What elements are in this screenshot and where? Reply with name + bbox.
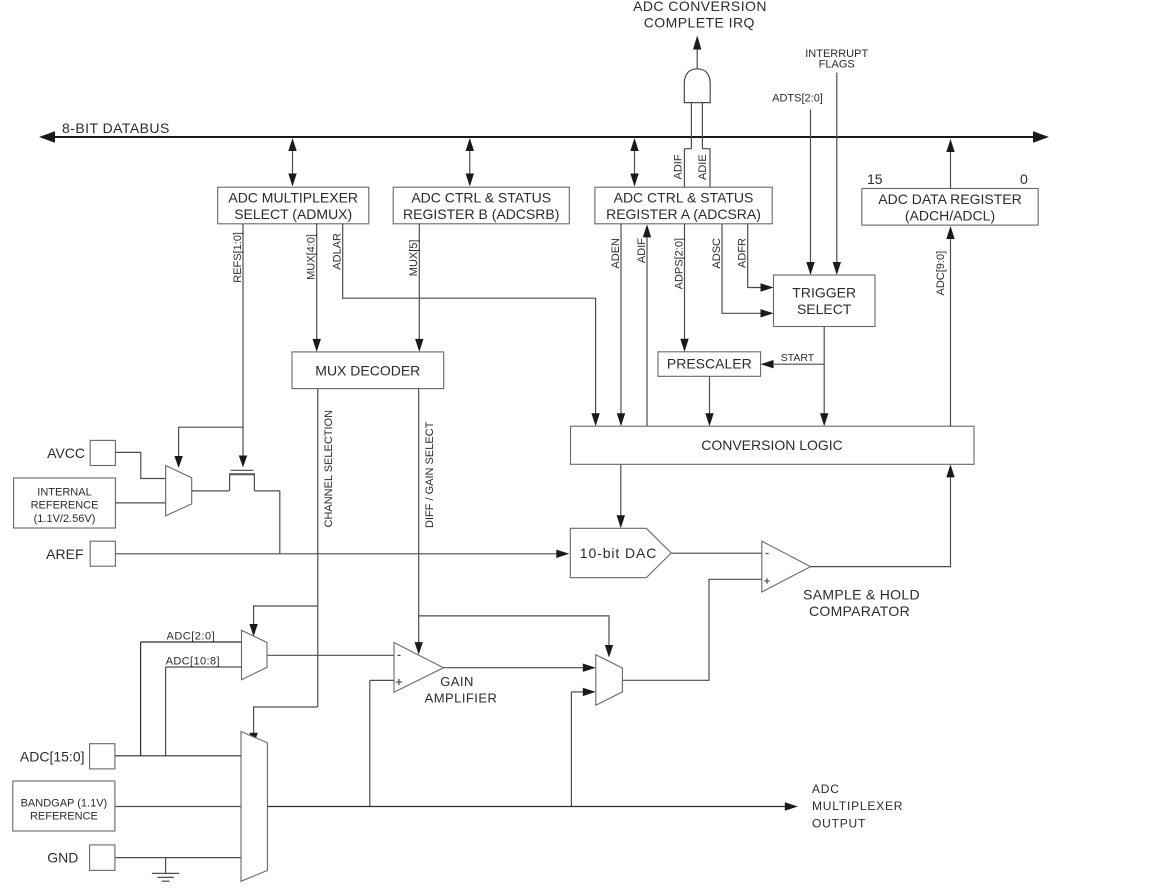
- svg-text:AREF: AREF: [46, 546, 83, 562]
- svg-text:ADC MULTIPLEXER: ADC MULTIPLEXER: [228, 190, 358, 206]
- svg-text:(ADCH/ADCL): (ADCH/ADCL): [905, 208, 995, 224]
- svg-text:START: START: [781, 352, 815, 364]
- svg-text:ADPS[2:0]: ADPS[2:0]: [673, 238, 685, 289]
- svg-text:ADC[9:0]: ADC[9:0]: [935, 251, 947, 296]
- svg-text:GAIN: GAIN: [440, 674, 474, 689]
- svg-text:ADC CTRL & STATUS: ADC CTRL & STATUS: [411, 190, 551, 206]
- svg-text:15: 15: [867, 171, 883, 187]
- svg-text:CHANNEL SELECTION: CHANNEL SELECTION: [323, 410, 335, 528]
- svg-text:REFERENCE: REFERENCE: [30, 811, 98, 823]
- svg-text:ADSC: ADSC: [711, 238, 723, 269]
- svg-text:SELECT: SELECT: [797, 301, 852, 317]
- svg-text:REGISTER B (ADCSRB): REGISTER B (ADCSRB): [403, 206, 559, 222]
- svg-text:ADIF: ADIF: [673, 154, 685, 179]
- svg-text:ADC[2:0]: ADC[2:0]: [167, 630, 216, 642]
- svg-text:REGISTER A (ADCSRA): REGISTER A (ADCSRA): [606, 206, 761, 222]
- svg-text:TRIGGER: TRIGGER: [792, 285, 856, 301]
- svg-text:8-BIT DATABUS: 8-BIT DATABUS: [62, 120, 170, 136]
- svg-text:10-bit DAC: 10-bit DAC: [580, 545, 657, 561]
- svg-text:OUTPUT: OUTPUT: [812, 817, 866, 831]
- svg-text:FLAGS: FLAGS: [819, 59, 855, 71]
- svg-text:ADFR: ADFR: [737, 238, 749, 268]
- svg-text:INTERNAL: INTERNAL: [37, 487, 91, 499]
- svg-text:MUX[4:0]: MUX[4:0]: [305, 234, 317, 280]
- svg-text:SAMPLE & HOLD: SAMPLE & HOLD: [803, 587, 920, 603]
- svg-text:CONVERSION LOGIC: CONVERSION LOGIC: [701, 437, 843, 453]
- svg-text:ADC DATA REGISTER: ADC DATA REGISTER: [878, 191, 1021, 207]
- svg-text:PRESCALER: PRESCALER: [667, 356, 752, 372]
- svg-text:COMPLETE IRQ: COMPLETE IRQ: [644, 14, 755, 30]
- svg-text:ADC: ADC: [812, 782, 840, 796]
- svg-text:SELECT (ADMUX): SELECT (ADMUX): [234, 206, 352, 222]
- svg-text:ADIF: ADIF: [636, 238, 648, 263]
- svg-text:ADC[10:8]: ADC[10:8]: [166, 655, 220, 667]
- svg-text:GND: GND: [47, 850, 78, 866]
- svg-text:0: 0: [1020, 171, 1028, 187]
- svg-text:DIFF / GAIN SELECT: DIFF / GAIN SELECT: [424, 421, 436, 528]
- svg-text:AMPLIFIER: AMPLIFIER: [425, 690, 498, 705]
- svg-text:ADC[15:0]: ADC[15:0]: [20, 749, 85, 765]
- svg-text:BANDGAP (1.1V): BANDGAP (1.1V): [21, 798, 108, 810]
- svg-text:ADLAR: ADLAR: [331, 233, 343, 270]
- svg-text:AVCC: AVCC: [47, 445, 85, 461]
- svg-text:REFERENCE: REFERENCE: [31, 500, 99, 512]
- svg-text:ADC CONVERSION: ADC CONVERSION: [633, 0, 767, 14]
- svg-text:ADIE: ADIE: [697, 154, 709, 180]
- svg-text:MUX DECODER: MUX DECODER: [315, 362, 420, 378]
- svg-text:MUX[5]: MUX[5]: [408, 240, 420, 277]
- svg-text:ADTS[2:0]: ADTS[2:0]: [772, 93, 823, 105]
- svg-text:ADC CTRL & STATUS: ADC CTRL & STATUS: [614, 190, 754, 206]
- svg-text:COMPARATOR: COMPARATOR: [809, 603, 910, 619]
- svg-text:(1.1V/2.56V): (1.1V/2.56V): [34, 513, 96, 525]
- svg-text:MULTIPLEXER: MULTIPLEXER: [812, 799, 903, 813]
- svg-text:ADEN: ADEN: [610, 238, 622, 269]
- svg-text:REFS[1:0]: REFS[1:0]: [232, 232, 244, 283]
